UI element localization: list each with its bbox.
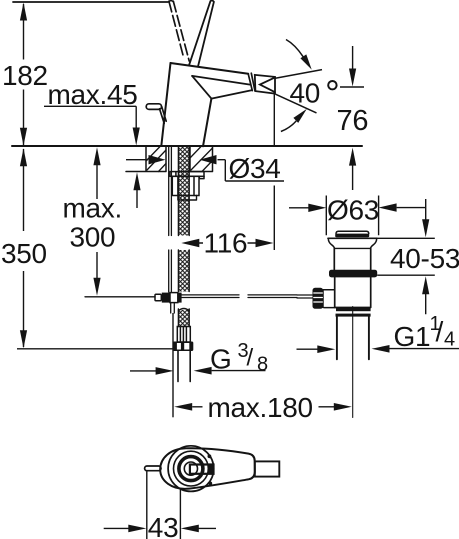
dim G1 1/4 leader [297,348,459,351]
G1 1/4 arrows [317,345,335,353]
svg-text:76: 76 [337,105,369,137]
svg-text:8: 8 [257,354,268,376]
mounting washer [170,172,204,179]
Ø63 arrows [308,204,326,212]
svg-text:max.: max. [63,193,122,224]
dim 350 line [23,149,25,347]
dashed lever handle (alternate position) [169,1,189,61]
dim max180 line [192,406,334,408]
svg-text:182: 182 [2,60,48,91]
spout joint [248,73,255,91]
dim 350 bottom reference [17,348,173,350]
Ø34 arrows [149,155,166,164]
pop-up waste: dome cap [336,231,369,233]
pop-up rod (vertical) [169,147,172,292]
dim 40-53 line [425,199,427,314]
svg-text:4: 4 [444,329,455,351]
mounting nut [172,176,199,200]
spray arc arrowheads [300,54,311,69]
deck cross-section left piece [126,146,166,172]
faucet spout recess [192,76,251,99]
waste body upper [334,249,370,270]
dim 116 [199,242,256,244]
max300 reference line [85,296,155,298]
dim Ø63 extensions [326,196,378,236]
dim 76 tick and line [340,46,364,190]
350 arrows [20,148,27,166]
waste flange and taper [328,237,377,239]
faucet body outline [161,63,248,146]
top view: spout stub [255,461,279,476]
dim 43 lines [104,472,216,539]
spray angle lines [275,70,322,113]
svg-text:Ø34: Ø34 [229,153,281,184]
rod tail below clamp [171,303,175,313]
aerator tip [255,75,275,94]
svg-text:/: / [247,345,254,372]
svg-text:G: G [210,344,231,375]
43 arrows [128,525,146,533]
max180 arrows [174,403,192,411]
supply pipe below nut [178,351,190,382]
waste body bottom line [335,306,371,308]
top view: pop-up rod [145,466,161,471]
top view: faucet body [160,448,255,489]
dim G3/8 leader [130,370,266,372]
svg-text:max.45: max.45 [48,79,138,110]
hose crosshatch [178,147,189,327]
solid lever handle [189,1,214,67]
crimp collar [177,327,190,343]
G3/8 nut [173,342,194,352]
deck/mounting surface line [12,145,362,147]
max45 arrows [133,128,140,146]
pop-up rod clamp [155,293,182,303]
182 arrows [20,3,27,21]
max300 arrows [93,147,100,165]
dim max180 left extension [172,313,174,417]
svg-text:116: 116 [204,228,248,259]
locking collar [336,308,371,312]
dim 116 extension [273,94,275,251]
svg-text:/: / [436,316,444,347]
40-53 arrows [422,219,429,237]
waste tailpipe [337,317,369,360]
spray angle arcs [281,40,303,132]
dim Ø34 [126,160,284,181]
svg-text:43: 43 [148,512,179,539]
dim Ø63 line [289,207,426,209]
waste body lower [335,277,371,307]
deck cross-section right piece [190,146,213,172]
pop-up knob on body [146,104,166,124]
svg-text:40: 40 [290,78,321,109]
svg-text:Ø63: Ø63 [327,195,379,226]
waste centerline [352,307,354,418]
top view: screw dots [208,454,212,458]
dim 182 line [23,4,25,145]
top view: lever tab [190,464,214,474]
dim max45 leader [44,106,137,208]
G3/8 arrows [156,367,174,375]
svg-text:40-53: 40-53 [390,243,459,274]
dim 40-53 references [377,238,435,275]
76 arrows [349,69,356,87]
top view: cartridge circles [168,446,214,492]
dim max300 line [96,165,98,278]
top reference line [13,1,168,3]
svg-text:350: 350 [1,238,47,269]
116 arrows [181,239,199,247]
knurled knob [313,288,324,309]
rod boss [323,290,336,308]
flexible hose (braided) [178,147,189,327]
svg-text:G1: G1 [394,321,431,352]
horizontal actuating rod [182,295,313,298]
rubber seal ring [329,270,377,278]
svg-text:max.180: max.180 [208,392,313,423]
svg-text:300: 300 [70,222,116,253]
